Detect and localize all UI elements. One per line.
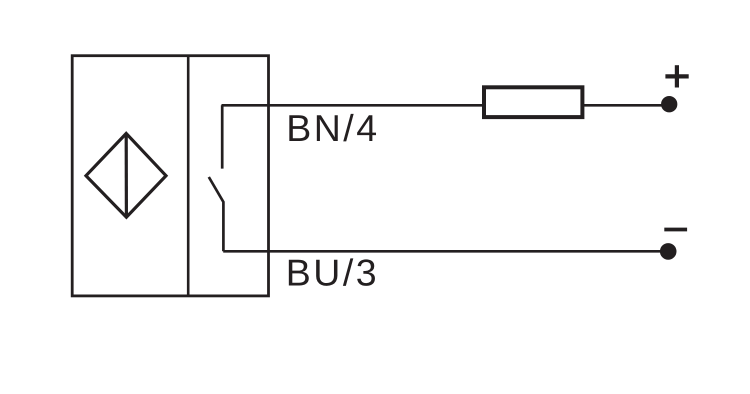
svg-text:BN/4: BN/4 xyxy=(286,107,379,149)
svg-text:BU/3: BU/3 xyxy=(286,252,379,294)
